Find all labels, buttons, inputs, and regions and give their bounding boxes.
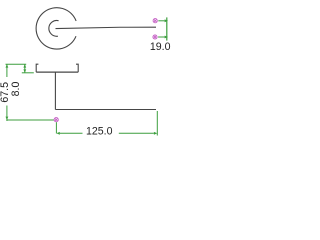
dim 19.0 extension arrow bottom [158,36,168,39]
dim 125.0 right extension line (vertical) [156,111,158,136]
lever arm line (front view) [56,27,157,28]
dim 67.5 bottom extension line [7,119,54,121]
svg-text:8.0: 8.0 [10,82,22,97]
dim 125.0 dimension line left segment with left arrow [56,132,82,135]
lever neck (side view) [54,72,56,110]
dim 125.0 left extension line (vertical) [55,122,57,133]
dim 19.0 extension arrow top [158,19,168,22]
svg-text:67.5: 67.5 [0,82,11,103]
rose side view left lip [36,64,38,72]
snap marker at lever end top [153,19,157,23]
rose side view right lip [76,64,78,72]
svg-text:125.0: 125.0 [86,125,113,137]
snap marker at lever grip reference [54,118,58,122]
rose inner circle (front view), open at right [49,20,59,36]
dim 8.0 vertical line with arrows [23,64,26,73]
dim 8.0 bottom extension line [22,72,34,74]
rose side view bottom line [36,71,78,73]
top extension line (shared by 8.0 and 67.5) [6,63,27,65]
svg-text:19.0: 19.0 [150,41,171,53]
lever arm (side view) [55,109,156,111]
rose outer circle (front view), open at right where lever passes [36,8,76,49]
dim 67.5 vertical line upper segment with up arrow [6,64,9,77]
dim 125.0 dimension line right segment with right arrow [119,132,158,135]
dim 67.5 vertical line lower segment with down arrow [6,106,9,122]
snap marker at lever end bottom [153,35,157,39]
dim 19.0 vertical dimension line [166,17,168,40]
